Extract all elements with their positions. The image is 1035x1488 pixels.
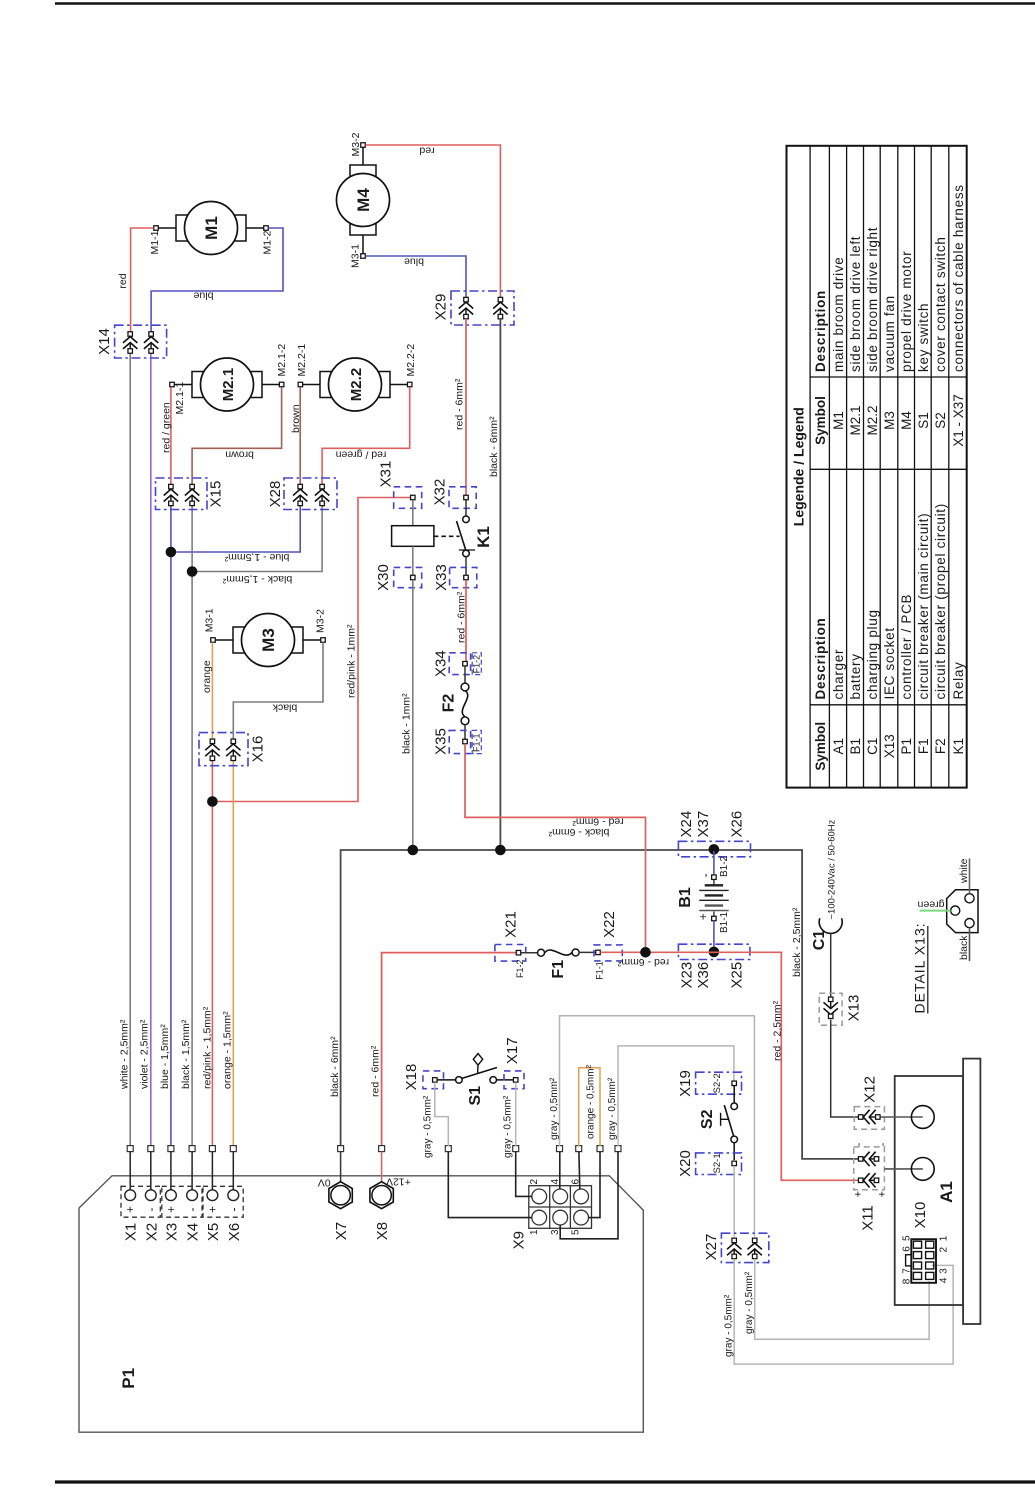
wire red/pink branch to X31 (red/pink - 1mm2) bbox=[212, 498, 410, 802]
svg-text:X4: X4 bbox=[185, 1223, 202, 1241]
svg-text:M2.2-2: M2.2-2 bbox=[405, 344, 417, 377]
svg-text:gray - 0,5mm²: gray - 0,5mm² bbox=[744, 1271, 755, 1334]
connector X21 bbox=[495, 945, 526, 962]
svg-text:X20: X20 bbox=[677, 1150, 694, 1177]
svg-text:F1-1: F1-1 bbox=[471, 733, 481, 752]
svg-text:X35: X35 bbox=[433, 728, 450, 755]
wire red-6mm2 bus X22 to X25 to X11 bbox=[600, 952, 858, 1180]
svg-text:M4: M4 bbox=[899, 411, 914, 430]
svg-text:M1-2: M1-2 bbox=[262, 230, 274, 254]
cable terminal at x=381.6 bbox=[379, 1146, 385, 1152]
svg-text:X32: X32 bbox=[432, 479, 449, 506]
svg-text:M2.2-1: M2.2-1 bbox=[296, 344, 308, 377]
connector X13 (IEC socket) bbox=[819, 993, 842, 1025]
svg-text:X3: X3 bbox=[163, 1223, 180, 1241]
svg-text:M4: M4 bbox=[354, 188, 373, 212]
svg-text:X21: X21 bbox=[503, 911, 520, 938]
svg-text:red / green: red / green bbox=[160, 402, 172, 453]
svg-text:red/pink - 1,5mm²: red/pink - 1,5mm² bbox=[201, 1006, 213, 1089]
wire X9 pin2 from X17 terminal bbox=[516, 1152, 532, 1197]
cable terminal at x=340.6 bbox=[338, 1146, 344, 1152]
cable terminal at x=150.8 bbox=[148, 1146, 154, 1152]
svg-text:1: 1 bbox=[529, 1229, 540, 1235]
svg-text:M1: M1 bbox=[831, 411, 846, 430]
cover contact switch S2 bbox=[733, 1086, 735, 1103]
connector X29 bbox=[451, 291, 514, 325]
svg-text:black - 1,5mm²: black - 1,5mm² bbox=[180, 1019, 192, 1089]
motor M4 propel drive motor bbox=[362, 147, 364, 165]
svg-text:orange - 0,5mm²: orange - 0,5mm² bbox=[586, 1064, 597, 1139]
svg-text:X29: X29 bbox=[433, 294, 450, 321]
svg-text:X27: X27 bbox=[703, 1234, 720, 1261]
svg-text:brown: brown bbox=[225, 449, 254, 461]
svg-text:-: - bbox=[144, 1208, 158, 1212]
connector X10 (8-pin) bbox=[911, 1239, 936, 1283]
connector X14 (dashed box with 2 mating contacts) bbox=[115, 325, 167, 358]
svg-text:M1: M1 bbox=[202, 216, 221, 240]
svg-text:-: - bbox=[853, 1142, 865, 1146]
wire blue M1-2 to X14 pin2 bbox=[151, 228, 283, 332]
svg-text:gray - 0,5mm²: gray - 0,5mm² bbox=[607, 1077, 618, 1140]
svg-text:X13: X13 bbox=[882, 734, 897, 758]
wire X9 pin4 bbox=[559, 1152, 561, 1189]
wire red/green M2.1-1 to X15 pin1 bbox=[170, 387, 172, 484]
wire gray X18 to X9 pin1 terminal bbox=[435, 1082, 449, 1146]
wire blue branch to X28 pin1 bbox=[171, 506, 300, 553]
svg-text:Relay: Relay bbox=[951, 661, 966, 699]
svg-text:battery: battery bbox=[848, 653, 863, 699]
svg-text:M1-1: M1-1 bbox=[149, 230, 161, 254]
detail X13 black lead bbox=[969, 928, 971, 961]
svg-text:red - 2,5mm²: red - 2,5mm² bbox=[771, 1000, 783, 1061]
wire black-1mm2 X30 to bus bbox=[412, 580, 414, 850]
svg-text:gray - 0,5mm²: gray - 0,5mm² bbox=[724, 1294, 735, 1357]
svg-text:+: + bbox=[123, 1206, 137, 1213]
svg-text:M3-2: M3-2 bbox=[350, 132, 362, 156]
A1 side rail bbox=[963, 1059, 980, 1324]
cable terminal at x=618.0 bbox=[615, 1146, 621, 1152]
relay K1 coil bbox=[412, 500, 414, 526]
svg-text:C1: C1 bbox=[811, 930, 828, 951]
connector X30 bbox=[394, 567, 422, 587]
svg-text:white: white bbox=[958, 858, 970, 884]
wire X1 white-2.5mm2 from P1 terminal to X14 pin1 bbox=[129, 354, 131, 1147]
wire orange M3-1 to X16 pin1 bbox=[211, 642, 213, 739]
wire X3 blue-1.5mm2 from P1 terminal via junction to X15 pin1 bbox=[170, 506, 172, 1147]
junction node red bus bbox=[640, 947, 651, 958]
svg-text:X18: X18 bbox=[403, 1064, 420, 1091]
svg-text:X14: X14 bbox=[96, 328, 113, 355]
svg-text:X25: X25 bbox=[729, 962, 746, 989]
svg-text:2: 2 bbox=[938, 1246, 949, 1252]
connector X19 bbox=[696, 1072, 742, 1094]
svg-text:blue - 1,5mm²: blue - 1,5mm² bbox=[224, 551, 289, 563]
connector X28 bbox=[284, 478, 337, 510]
svg-text:orange - 1,5mm²: orange - 1,5mm² bbox=[221, 1011, 233, 1089]
svg-text:5: 5 bbox=[571, 1229, 582, 1235]
detail X13 white lead bbox=[969, 859, 971, 894]
svg-text:red - 6mm²: red - 6mm² bbox=[572, 816, 624, 828]
svg-text:violet - 2,5mm²: violet - 2,5mm² bbox=[139, 1019, 151, 1089]
connector X32 bbox=[449, 487, 476, 509]
battery B1 bbox=[713, 851, 715, 875]
svg-text:X6: X6 bbox=[226, 1223, 243, 1241]
cable terminal at x=448.3 bbox=[445, 1146, 451, 1152]
svg-text:X34: X34 bbox=[433, 650, 450, 677]
svg-text:charger: charger bbox=[831, 649, 846, 700]
connector X31 bbox=[394, 487, 422, 509]
connector X22 bbox=[594, 945, 622, 961]
cable terminal at x=600.0 bbox=[597, 1146, 603, 1152]
wire black branch to X28 pin2 bbox=[192, 506, 322, 572]
socket X6 pin bbox=[232, 1152, 234, 1190]
svg-text:IEC socket: IEC socket bbox=[882, 627, 897, 699]
svg-text:X2: X2 bbox=[143, 1223, 160, 1241]
svg-text:blue: blue bbox=[193, 290, 213, 302]
svg-text:+: + bbox=[164, 1206, 178, 1213]
wire black-6mm2 X29 to bus bbox=[499, 319, 501, 850]
A1 terminal circle (charge port) bbox=[884, 1168, 922, 1170]
svg-text:gray - 0,5mm²: gray - 0,5mm² bbox=[502, 1095, 513, 1158]
svg-text:M2.1-1: M2.1-1 bbox=[174, 382, 186, 415]
svg-text:+: + bbox=[853, 1191, 865, 1197]
svg-text:black: black bbox=[958, 935, 970, 960]
svg-text:charging plug: charging plug bbox=[865, 609, 880, 699]
wire gray X9-pin3 route to X19 bbox=[618, 1046, 734, 1146]
svg-text:+12V: +12V bbox=[386, 1176, 411, 1188]
svg-text:red - 6mm²: red - 6mm² bbox=[370, 1045, 382, 1097]
svg-text:A1: A1 bbox=[831, 738, 846, 755]
svg-text:red: red bbox=[117, 273, 129, 288]
wire black M3-2 to X16 pin2 bbox=[233, 642, 323, 739]
svg-text:black - 1,5mm²: black - 1,5mm² bbox=[222, 573, 292, 585]
detail X13 plug face bbox=[947, 890, 978, 933]
svg-text:X37: X37 bbox=[695, 811, 712, 838]
A1 terminal circle (key switch) bbox=[881, 1116, 923, 1118]
svg-text:green: green bbox=[917, 899, 944, 911]
connector X12 (gray) bbox=[854, 1107, 884, 1130]
svg-text:red/pink - 1mm²: red/pink - 1mm² bbox=[346, 624, 358, 698]
svg-text:~100-240Vac / 50-60Hz: ~100-240Vac / 50-60Hz bbox=[826, 819, 837, 919]
legend title divider bbox=[809, 146, 811, 788]
cable terminal at x=192.1 bbox=[189, 1146, 195, 1152]
svg-text:3: 3 bbox=[938, 1268, 949, 1274]
connector X16 bbox=[199, 733, 248, 766]
connector X18 bbox=[423, 1071, 444, 1089]
wire red-6mm2 X29 to X32 bbox=[465, 319, 467, 495]
motor M1 main broom drive bbox=[158, 227, 176, 229]
legend table outer box bbox=[787, 146, 967, 788]
svg-text:X8: X8 bbox=[374, 1222, 391, 1240]
svg-text:DETAIL X13:: DETAIL X13: bbox=[912, 922, 928, 1013]
wire X13 to X12 bbox=[831, 1020, 859, 1117]
svg-text:key switch: key switch bbox=[916, 303, 931, 372]
junction node battery plus bbox=[709, 947, 720, 958]
wire X4 black-1.5mm2 from P1 terminal via junction to X15 pin2 bbox=[191, 506, 193, 1147]
svg-text:X1: X1 bbox=[123, 1223, 140, 1241]
svg-text:-: - bbox=[877, 1142, 889, 1146]
svg-text:-: - bbox=[185, 1208, 199, 1212]
svg-text:+: + bbox=[696, 913, 710, 920]
svg-text:red - 6mm²: red - 6mm² bbox=[454, 378, 466, 430]
svg-text:Description: Description bbox=[813, 290, 828, 372]
connector X17 bbox=[504, 1071, 524, 1089]
connector X11 (gray, 2 contacts) bbox=[854, 1147, 885, 1190]
wire C1 to X13 bbox=[830, 933, 832, 997]
wire X7 black-6mm2 bus: P1 to X24/X37/X26 and on to X11 (black-2,5mm2) bbox=[341, 850, 859, 1159]
svg-text:C1: C1 bbox=[865, 738, 880, 755]
svg-text:X17: X17 bbox=[504, 1037, 521, 1064]
svg-text:B1-2: B1-2 bbox=[719, 855, 730, 877]
svg-text:gray - 0,5mm²: gray - 0,5mm² bbox=[549, 1077, 560, 1140]
svg-text:F1: F1 bbox=[550, 960, 567, 979]
svg-text:F2: F2 bbox=[933, 738, 948, 754]
svg-text:white - 2,5mm²: white - 2,5mm² bbox=[118, 1019, 130, 1090]
ferrule label F1-2 at X34 bbox=[472, 653, 481, 675]
svg-text:M3: M3 bbox=[259, 628, 278, 652]
cable terminal at x=212.4 bbox=[209, 1146, 215, 1152]
svg-text:vacuum fan: vacuum fan bbox=[882, 295, 897, 372]
connector X34 bbox=[449, 653, 470, 675]
svg-text:X19: X19 bbox=[677, 1070, 694, 1097]
svg-text:K1: K1 bbox=[474, 526, 493, 548]
connector X23 X36 X25 (triple, on red bus) bbox=[678, 944, 750, 959]
wire red M4 to X29 pin2 bbox=[365, 145, 500, 297]
wire gray X27 right to X10 pin4 bbox=[755, 1259, 929, 1340]
svg-text:X22: X22 bbox=[601, 911, 618, 938]
svg-text:orange: orange bbox=[201, 660, 213, 693]
svg-text:M3-1: M3-1 bbox=[350, 244, 362, 268]
socket X3 pin bbox=[170, 1152, 172, 1190]
svg-text:1: 1 bbox=[938, 1235, 949, 1241]
svg-text:controller / PCB: controller / PCB bbox=[899, 594, 914, 700]
svg-text:B1-1: B1-1 bbox=[719, 911, 730, 933]
wire red-6mm2 X35 to red bus bbox=[465, 744, 646, 953]
svg-text:M2.1-2: M2.1-2 bbox=[276, 344, 288, 377]
svg-text:S2: S2 bbox=[933, 412, 948, 429]
svg-text:X23: X23 bbox=[679, 962, 696, 989]
svg-text:blue: blue bbox=[404, 256, 424, 268]
svg-text:X28: X28 bbox=[267, 481, 284, 508]
wire red M1-1 to X14 pin1 bbox=[131, 228, 154, 332]
svg-text:S2: S2 bbox=[699, 1109, 716, 1129]
svg-text:F1: F1 bbox=[916, 738, 931, 754]
legend column dividers bbox=[810, 376, 967, 378]
motor M2.1 side broom drive left bbox=[174, 384, 192, 386]
wire X5 red/pink-1.5mm2 from P1 terminal to X16 pin1 bbox=[211, 761, 213, 1146]
svg-text:-: - bbox=[226, 1208, 240, 1212]
motor M2.2 side broom drive right bbox=[303, 384, 320, 386]
cable terminal at x=233.3 bbox=[230, 1146, 236, 1152]
svg-text:X15: X15 bbox=[208, 481, 225, 508]
svg-text:Legende / Legend: Legende / Legend bbox=[790, 407, 806, 526]
junction node red/pink bbox=[207, 796, 218, 807]
svg-text:red - 6mm²: red - 6mm² bbox=[456, 591, 468, 643]
detail X13 green lead bbox=[920, 910, 951, 912]
svg-text:X30: X30 bbox=[375, 564, 392, 591]
junction node bus-black at X29 wire bbox=[495, 845, 506, 856]
socket group box X1-X2 bbox=[121, 1186, 160, 1217]
cable terminal at x=559.5 bbox=[557, 1146, 563, 1152]
wire X6 orange-1.5mm2 from P1 terminal to X16 pin2 bbox=[232, 761, 234, 1146]
key switch S1 bbox=[437, 1079, 456, 1081]
svg-text:Description: Description bbox=[813, 618, 828, 700]
svg-text:S2-2: S2-2 bbox=[712, 1073, 723, 1093]
svg-text:X24: X24 bbox=[678, 811, 695, 838]
svg-text:4: 4 bbox=[938, 1277, 949, 1283]
page bottom border (landscape left frame edge) bbox=[55, 1480, 1035, 1483]
circuit breaker F2 bbox=[464, 666, 466, 683]
svg-text:M2.2: M2.2 bbox=[348, 368, 365, 401]
svg-text:0V: 0V bbox=[318, 1176, 331, 1188]
wire gray X9-pin4 route to X27 right pin bbox=[560, 1016, 755, 1237]
svg-text:P1: P1 bbox=[899, 738, 914, 755]
svg-text:red - 6mm²: red - 6mm² bbox=[617, 956, 669, 968]
connector X24 X37 X26 (triple, on black bus) bbox=[678, 841, 750, 857]
cable terminal at x=578.7 bbox=[576, 1146, 582, 1152]
wire orange jumper X9 pins 6-5 bbox=[579, 1068, 600, 1146]
connector X9 (2x3 grid) bbox=[529, 1186, 592, 1229]
svg-text:S1: S1 bbox=[916, 412, 931, 429]
junction node black bbox=[187, 566, 198, 577]
svg-text:P1: P1 bbox=[119, 1368, 138, 1389]
cable terminal at x=170.9 bbox=[168, 1146, 174, 1152]
svg-text:black - 6mm²: black - 6mm² bbox=[329, 1036, 341, 1097]
svg-text:M3-1: M3-1 bbox=[203, 608, 215, 632]
wire red/green M2.2-2 to X28 pin2 bbox=[322, 387, 410, 484]
svg-text:X1 - X37: X1 - X37 bbox=[951, 394, 966, 447]
svg-text:propel drive motor: propel drive motor bbox=[899, 251, 914, 372]
svg-text:gray - 0,5mm²: gray - 0,5mm² bbox=[423, 1095, 434, 1158]
svg-text:X12: X12 bbox=[861, 1076, 878, 1103]
svg-text:side broom drive right: side broom drive right bbox=[865, 227, 880, 372]
controller P1 outline bbox=[79, 1176, 643, 1432]
svg-text:cover contact switch: cover contact switch bbox=[933, 236, 948, 372]
svg-text:X5: X5 bbox=[205, 1223, 222, 1241]
svg-text:+: + bbox=[877, 1191, 889, 1197]
svg-text:brown: brown bbox=[290, 404, 302, 433]
svg-text:A1: A1 bbox=[937, 1181, 956, 1203]
svg-text:F1-2: F1-2 bbox=[515, 959, 525, 978]
socket group box X3-X4 bbox=[162, 1186, 202, 1217]
wire X2 violet-2.5mm2 from P1 terminal to X14 pin2 bbox=[150, 354, 152, 1147]
circuit breaker F1 bbox=[521, 952, 538, 954]
svg-text:F1-2: F1-2 bbox=[471, 655, 481, 674]
svg-text:X11: X11 bbox=[859, 1205, 876, 1231]
svg-text:2: 2 bbox=[529, 1178, 540, 1184]
legend row lines bbox=[828, 146, 830, 788]
svg-text:F1-1: F1-1 bbox=[595, 961, 605, 980]
svg-text:X36: X36 bbox=[695, 962, 712, 989]
motor M3 vacuum fan bbox=[215, 639, 233, 641]
socket X5 pin bbox=[211, 1152, 213, 1190]
svg-text:M2.1: M2.1 bbox=[848, 405, 863, 435]
connector X33 bbox=[450, 567, 477, 587]
cable terminal at x=130.2 bbox=[127, 1146, 133, 1152]
relay K1 contact (switch) bbox=[465, 500, 467, 516]
wire gray X27 left to X10 pin3 bbox=[734, 1259, 953, 1364]
wire X8 red-6mm2 from P1 to X21 bbox=[382, 953, 517, 1146]
svg-text:black: black bbox=[272, 702, 297, 714]
svg-text:F2: F2 bbox=[441, 694, 458, 713]
svg-text:X26: X26 bbox=[729, 811, 746, 838]
socket group box X5-X6 bbox=[203, 1186, 243, 1217]
svg-text:X31: X31 bbox=[378, 461, 395, 488]
svg-text:X9: X9 bbox=[511, 1231, 528, 1249]
socket X2 pin bbox=[150, 1152, 152, 1190]
wire K1 coil to X30 bbox=[412, 546, 414, 575]
svg-text:X7: X7 bbox=[333, 1222, 350, 1240]
svg-text:blue - 1,5mm²: blue - 1,5mm² bbox=[159, 1024, 171, 1089]
wire X9 pin1 from X18 terminal bbox=[448, 1152, 532, 1218]
junction node battery minus bbox=[709, 844, 720, 855]
power stud X8 (+12V) bbox=[381, 1152, 383, 1185]
svg-text:7: 7 bbox=[902, 1268, 913, 1274]
svg-text:black - 2,5mm²: black - 2,5mm² bbox=[791, 907, 803, 977]
svg-text:M2.2: M2.2 bbox=[865, 405, 880, 435]
svg-text:red: red bbox=[419, 145, 434, 157]
socket X4 pin bbox=[191, 1152, 193, 1190]
svg-text:8: 8 bbox=[902, 1278, 913, 1284]
svg-text:S1: S1 bbox=[467, 1086, 484, 1106]
svg-text:main broom drive: main broom drive bbox=[831, 257, 846, 373]
svg-text:circuit breaker (propel circui: circuit breaker (propel circuit) bbox=[933, 503, 948, 699]
svg-text:red / green: red / green bbox=[335, 449, 386, 461]
wire X9 pin6 bbox=[578, 1152, 581, 1189]
wire brown M2.2-1 to X28 pin1 bbox=[299, 387, 301, 484]
svg-text:5: 5 bbox=[902, 1235, 913, 1241]
svg-text:S2-1: S2-1 bbox=[712, 1153, 723, 1173]
wire red-6mm2 X33 to X34 bbox=[465, 580, 467, 661]
socket X1 pin bbox=[129, 1152, 131, 1190]
svg-text:connectors of cable harness: connectors of cable harness bbox=[951, 184, 966, 372]
cable terminal at x=515.7 bbox=[513, 1146, 519, 1152]
connector X35 bbox=[449, 730, 470, 753]
svg-text:black - 1mm²: black - 1mm² bbox=[400, 693, 412, 754]
charger plug C1 (AC inlet arc) bbox=[819, 918, 842, 933]
wire X9 pin3 bbox=[560, 1152, 618, 1239]
connector X27 bbox=[721, 1233, 768, 1262]
wire blue M4 to X29 pin1 bbox=[365, 256, 466, 297]
svg-text:-: - bbox=[698, 873, 712, 877]
svg-text:X16: X16 bbox=[250, 736, 267, 763]
svg-text:6: 6 bbox=[902, 1246, 913, 1252]
junction node bus-black at X30 wire bbox=[408, 845, 419, 856]
power stud X7 (0V) bbox=[340, 1152, 342, 1185]
wire gray X17 to X9 pin2 terminal bbox=[515, 1082, 517, 1146]
svg-text:X10: X10 bbox=[912, 1202, 929, 1229]
svg-text:X13: X13 bbox=[846, 995, 863, 1022]
svg-text:black - 6mm²: black - 6mm² bbox=[488, 416, 500, 477]
page top border (landscape right frame edge) bbox=[55, 2, 1035, 5]
connector X15 bbox=[156, 478, 208, 510]
svg-text:circuit breaker (main circuit): circuit breaker (main circuit) bbox=[916, 513, 931, 700]
svg-text:X33: X33 bbox=[433, 564, 450, 591]
svg-text:M2.1: M2.1 bbox=[220, 368, 237, 401]
svg-text:B1: B1 bbox=[677, 887, 694, 908]
svg-text:+: + bbox=[205, 1206, 219, 1213]
wire gray X20 to X27 left pin bbox=[733, 1166, 735, 1237]
svg-text:Symbol: Symbol bbox=[813, 722, 828, 771]
K1 mechanical link (dashed) bbox=[434, 535, 460, 537]
wire brown M2.1-2 to X15 pin2 bbox=[192, 387, 282, 484]
svg-text:Symbol: Symbol bbox=[813, 396, 828, 445]
control panel A1 box bbox=[895, 1076, 963, 1305]
svg-text:M3: M3 bbox=[882, 411, 897, 430]
wire X9 pin5 bbox=[589, 1152, 601, 1218]
junction node blue bbox=[166, 547, 177, 558]
svg-text:side broom drive left: side broom drive left bbox=[848, 236, 863, 372]
